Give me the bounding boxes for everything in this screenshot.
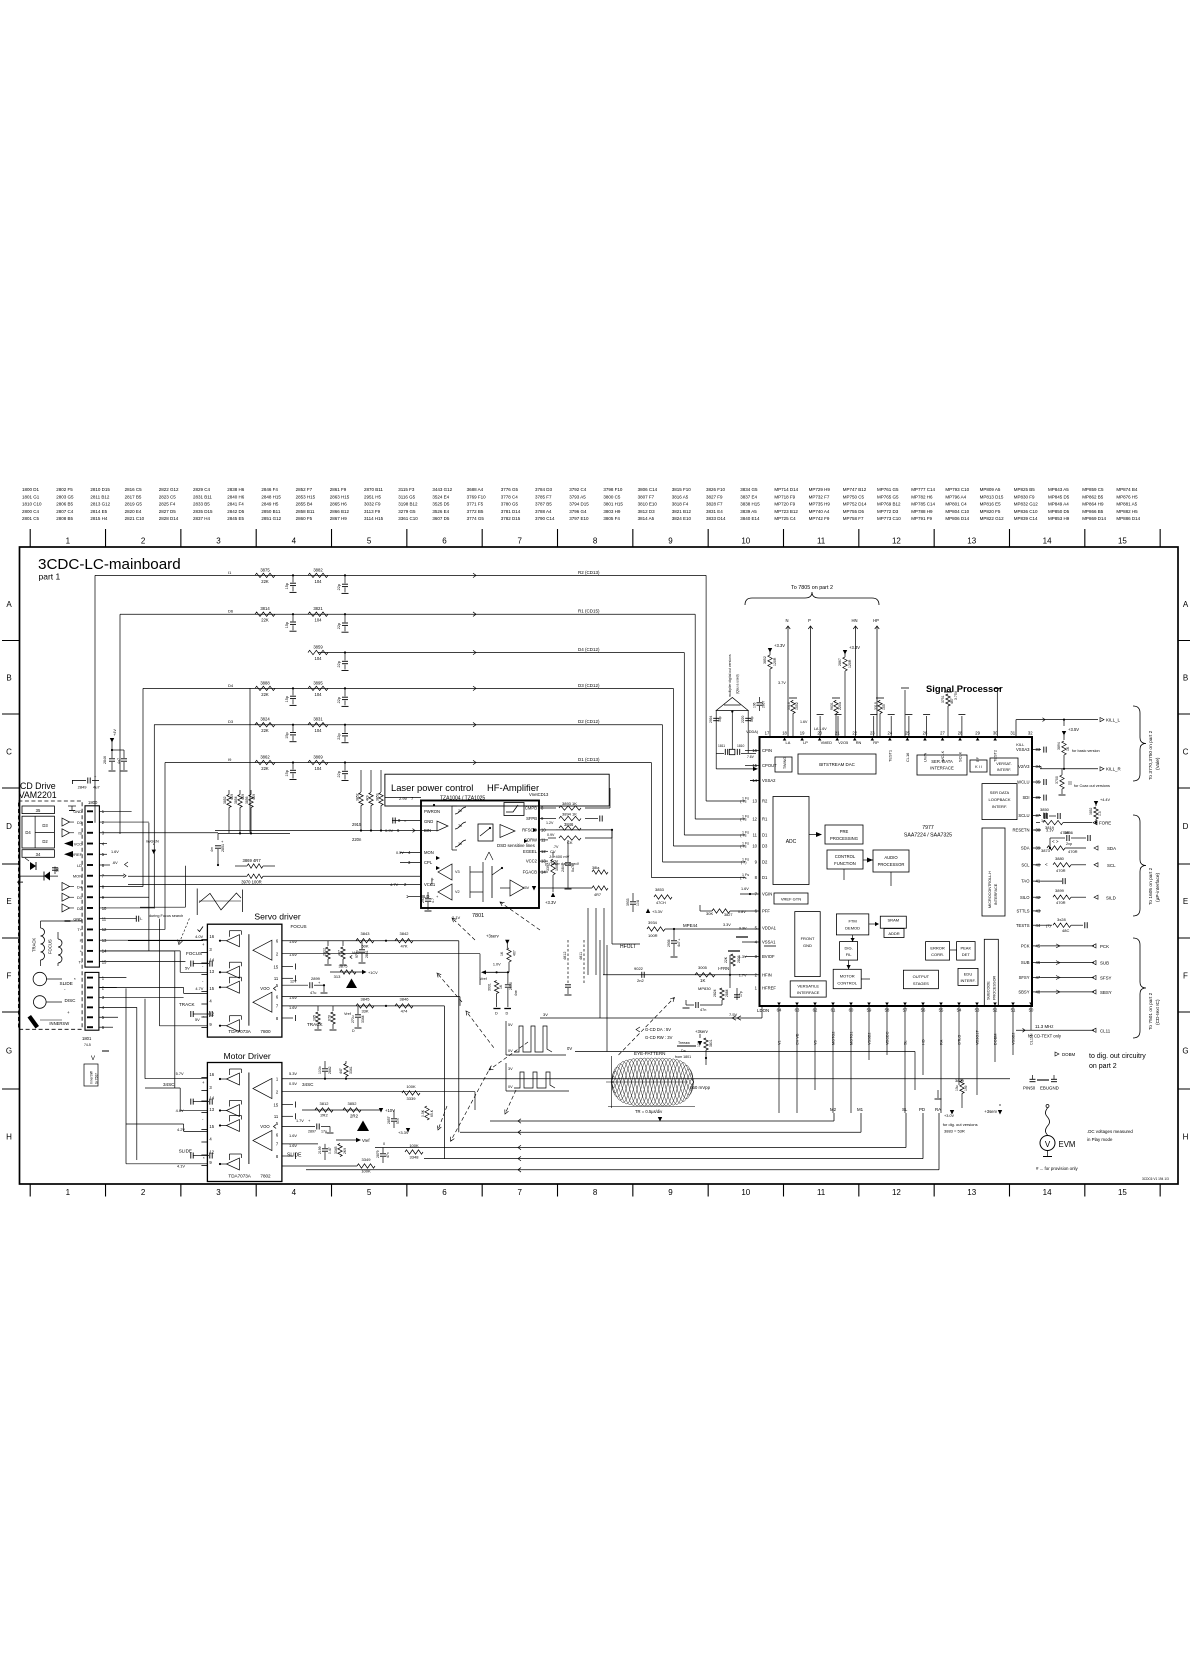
- svg-text:3688 A4: 3688 A4: [467, 487, 484, 492]
- svg-text:14: 14: [1043, 1188, 1052, 1197]
- svg-text:3818 F4: 3818 F4: [672, 502, 689, 507]
- svg-text:2825 F4: 2825 F4: [159, 502, 176, 507]
- svg-text:3790 C14: 3790 C14: [535, 516, 555, 521]
- svg-text:4u7: 4u7: [677, 941, 681, 947]
- svg-text:D6: D6: [228, 609, 234, 614]
- svg-text:10: 10: [741, 537, 750, 546]
- svg-text:V2O5: V2O5: [838, 740, 848, 745]
- svg-text:D2: D2: [42, 839, 48, 844]
- svg-text:SDA: SDA: [1021, 846, 1030, 851]
- svg-text:2897: 2897: [308, 1130, 316, 1134]
- svg-text:VAM2201: VAM2201: [19, 790, 57, 800]
- svg-text:3894: 3894: [1057, 742, 1061, 750]
- svg-text:To 1605 on part 2: To 1605 on part 2: [1148, 867, 1154, 905]
- svg-text:SDI: SDI: [1023, 795, 1030, 800]
- svg-text:270u: 270u: [351, 1015, 355, 1023]
- svg-text:4811: 4811: [579, 952, 583, 960]
- svg-text:MP742 F9: MP742 F9: [809, 516, 830, 521]
- svg-text:2849: 2849: [78, 785, 88, 790]
- svg-text:CORR.: CORR.: [931, 952, 944, 957]
- svg-text:10u: 10u: [955, 1085, 959, 1091]
- svg-text:3806 C14: 3806 C14: [638, 487, 658, 492]
- svg-text:2808 B5: 2808 B5: [56, 516, 73, 521]
- svg-text:R1 (CD15): R1 (CD15): [578, 609, 600, 614]
- svg-text:2846: 2846: [103, 756, 107, 764]
- svg-text:2803 G5: 2803 G5: [56, 494, 74, 499]
- svg-text:PEAK: PEAK: [960, 946, 971, 951]
- svg-text:VERSATILE: VERSATILE: [797, 984, 819, 989]
- svg-text:2815 H4: 2815 H4: [90, 516, 108, 521]
- svg-text:2850: 2850: [509, 982, 513, 990]
- svg-text:MP881 A5: MP881 A5: [1116, 502, 1137, 507]
- svg-text:6: 6: [442, 1188, 447, 1197]
- svg-text:PRE: PRE: [840, 829, 849, 834]
- svg-text:EYE-PATTERN: EYE-PATTERN: [634, 1051, 665, 1056]
- svg-text:LOOPBACK: LOOPBACK: [988, 797, 1010, 802]
- svg-text:2867: 2867: [838, 658, 842, 666]
- svg-text:D2: D2: [77, 906, 82, 911]
- svg-text:38Ia: 38Ia: [592, 866, 600, 870]
- svg-text:3319: 3319: [874, 702, 878, 710]
- svg-text:1800: 1800: [88, 800, 98, 805]
- svg-text:3782 D15: 3782 D15: [501, 516, 521, 521]
- svg-text:8: 8: [593, 1188, 598, 1197]
- svg-text:15: 15: [274, 1102, 279, 1107]
- svg-text:to dig. out circuitry: to dig. out circuitry: [1089, 1053, 1146, 1060]
- svg-text:2800 C4: 2800 C4: [22, 509, 40, 514]
- svg-text:SUBCODE: SUBCODE: [987, 981, 991, 1000]
- svg-text:*: *: [74, 977, 76, 982]
- svg-text:2K9: 2K9: [343, 1148, 347, 1154]
- svg-text:MP864 H9: MP864 H9: [1082, 502, 1104, 507]
- svg-text:3831: 3831: [313, 717, 323, 722]
- svg-text:< >: < >: [1052, 839, 1059, 844]
- svg-text:5V: 5V: [195, 1017, 200, 1022]
- svg-text:To 3770,3750 on part 2: To 3770,3750 on part 2: [1148, 730, 1154, 780]
- svg-text:SLIDE: SLIDE: [287, 1153, 302, 1159]
- svg-text:MP874 B4: MP874 B4: [1116, 487, 1138, 492]
- svg-text:V3: V3: [814, 1040, 818, 1045]
- svg-text:3846: 3846: [564, 822, 574, 827]
- svg-text:4R7: 4R7: [594, 893, 601, 897]
- svg-text:VSSD2: VSSD2: [1012, 1033, 1016, 1045]
- svg-text:4: 4: [292, 537, 297, 546]
- svg-text:1810 C10: 1810 C10: [22, 502, 42, 507]
- svg-text:2vp: 2vp: [1066, 842, 1072, 846]
- svg-text:MPE44: MPE44: [683, 923, 698, 928]
- svg-text:MP822 G12: MP822 G12: [980, 516, 1005, 521]
- svg-text:D2: D2: [762, 860, 768, 865]
- svg-text:GND: GND: [424, 819, 433, 824]
- svg-text:+3.3V: +3.3V: [652, 909, 663, 914]
- svg-text:R2 (CD13): R2 (CD13): [578, 570, 600, 575]
- svg-text:CMPB: CMPB: [525, 806, 537, 811]
- svg-text:2837 H4: 2837 H4: [193, 516, 211, 521]
- svg-text:FRONT: FRONT: [801, 936, 815, 941]
- svg-text:D2 (CD12): D2 (CD12): [578, 719, 600, 724]
- svg-text:470R: 470R: [1056, 868, 1066, 873]
- svg-text:To 7805 on part 2: To 7805 on part 2: [791, 585, 833, 591]
- svg-text:MP725 C4: MP725 C4: [774, 516, 796, 521]
- svg-text:15p: 15p: [285, 696, 289, 702]
- svg-text:10: 10: [741, 1188, 750, 1197]
- svg-text:to 7507: to 7507: [95, 1073, 99, 1084]
- svg-text:(CD-text IC): (CD-text IC): [1155, 999, 1161, 1025]
- svg-text:3116 G5: 3116 G5: [398, 494, 415, 499]
- svg-text:Signal Processor: Signal Processor: [926, 683, 1003, 694]
- svg-text:V2/V3: V2/V3: [1018, 764, 1030, 769]
- svg-text:D1: D1: [762, 875, 768, 880]
- svg-text:RA: RA: [935, 1107, 941, 1112]
- svg-text:2813 G12: 2813 G12: [90, 502, 110, 507]
- svg-text:2810 D15: 2810 D15: [90, 487, 110, 492]
- svg-text:4.1V: 4.1V: [177, 1164, 185, 1169]
- svg-text:V3: V3: [455, 870, 460, 874]
- svg-text:SFSY: SFSY: [1100, 976, 1112, 981]
- svg-text:1.2V: 1.2V: [546, 821, 554, 825]
- svg-text:3842: 3842: [400, 931, 410, 936]
- svg-text:2841 F4: 2841 F4: [227, 502, 244, 507]
- svg-text:3198 B12: 3198 B12: [398, 502, 418, 507]
- svg-text:1K: 1K: [500, 951, 504, 956]
- svg-text:+3serv: +3serv: [486, 934, 500, 939]
- svg-text:2806 B5: 2806 B5: [56, 502, 73, 507]
- svg-text:30p: 30p: [718, 716, 722, 722]
- svg-text:EVM: EVM: [1059, 1140, 1076, 1149]
- svg-text:.DC voltages measured: .DC voltages measured: [1087, 1129, 1133, 1134]
- svg-text:P: P: [808, 618, 811, 623]
- svg-text:D3: D3: [762, 844, 768, 849]
- svg-text:3CDC6 V1 194 1/3: 3CDC6 V1 194 1/3: [1142, 1177, 1169, 1181]
- svg-text:15: 15: [209, 1124, 214, 1129]
- svg-text:SRAM: SRAM: [888, 918, 900, 923]
- svg-text:22p: 22p: [337, 661, 341, 667]
- svg-text:Temp: Temp: [430, 878, 434, 886]
- svg-text:MP853 H9: MP853 H9: [1048, 516, 1070, 521]
- svg-text:D1: D1: [762, 833, 768, 838]
- svg-text:SFPB: SFPB: [526, 816, 537, 821]
- svg-text:MP747 B12: MP747 B12: [843, 487, 867, 492]
- svg-text:VOO: VOO: [260, 986, 270, 991]
- svg-text:2850 B11: 2850 B11: [261, 509, 280, 514]
- svg-text:MP752 D14: MP752 D14: [843, 502, 867, 507]
- svg-text:SL: SL: [904, 1040, 908, 1045]
- svg-text:12K: 12K: [697, 1040, 701, 1047]
- svg-text:15: 15: [1118, 1188, 1127, 1197]
- svg-text:DOBM: DOBM: [994, 1034, 998, 1045]
- svg-text:3443 G12: 3443 G12: [432, 487, 452, 492]
- svg-text:MP830: MP830: [698, 986, 711, 991]
- svg-text:12: 12: [892, 537, 901, 546]
- svg-text:ADC: ADC: [786, 839, 797, 845]
- svg-text:2819 G5: 2819 G5: [125, 502, 143, 507]
- svg-text:MP782 H6: MP782 H6: [911, 494, 933, 499]
- svg-text:47K: 47K: [400, 944, 407, 949]
- svg-text:3361 C10: 3361 C10: [398, 516, 418, 521]
- svg-text:2851: 2851: [221, 844, 225, 852]
- svg-text:104: 104: [315, 766, 323, 771]
- svg-text:A: A: [6, 600, 12, 609]
- svg-text:2827 D5: 2827 D5: [159, 509, 177, 514]
- svg-text:0V: 0V: [567, 1046, 572, 1051]
- svg-text:0V: 0V: [508, 1049, 513, 1053]
- svg-text:G: G: [6, 1047, 12, 1056]
- svg-text:<: <: [1045, 862, 1048, 867]
- svg-text:1.6V: 1.6V: [111, 850, 119, 854]
- svg-text:3113 F9: 3113 F9: [364, 509, 381, 514]
- svg-text:2824: 2824: [713, 989, 717, 997]
- svg-text:MP732 F7: MP732 F7: [809, 494, 830, 499]
- svg-text:1.6V: 1.6V: [741, 887, 749, 891]
- svg-text:3846: 3846: [400, 997, 410, 1002]
- svg-text:3882: 3882: [313, 567, 323, 572]
- svg-text:0.8V: 0.8V: [738, 910, 746, 914]
- svg-text:2951 H5: 2951 H5: [364, 494, 382, 499]
- svg-text:Motor Driver: Motor Driver: [224, 1051, 271, 1061]
- svg-text:7977: 7977: [922, 825, 934, 831]
- svg-text:2867 H9: 2867 H9: [330, 516, 348, 521]
- svg-text:MP839 C14: MP839 C14: [1014, 516, 1038, 521]
- svg-text:104: 104: [315, 618, 323, 623]
- svg-text:2R2: 2R2: [350, 1114, 359, 1119]
- svg-text:E: E: [6, 897, 11, 906]
- svg-text:2915: 2915: [352, 822, 362, 827]
- svg-text:(Qau a used): (Qau a used): [736, 674, 740, 694]
- svg-text:3869: 3869: [313, 755, 323, 760]
- svg-text:TDA7073A: TDA7073A: [228, 1174, 251, 1179]
- svg-text:2870 B11: 2870 B11: [364, 487, 383, 492]
- svg-text:F: F: [7, 972, 12, 981]
- svg-text:( 7s: ( 7s: [740, 845, 746, 849]
- svg-text:INTERFACE: INTERFACE: [797, 990, 820, 995]
- svg-text:2845 E5: 2845 E5: [227, 516, 244, 521]
- svg-text:FOCUS: FOCUS: [186, 951, 202, 956]
- svg-text:FOCUS: FOCUS: [48, 939, 53, 954]
- svg-text:HFOLT: HFOLT: [620, 944, 636, 950]
- svg-text:17: 17: [765, 731, 770, 736]
- svg-text:447: 447: [338, 950, 342, 956]
- svg-text:3824 E10: 3824 E10: [672, 516, 692, 521]
- svg-text:A: A: [1183, 600, 1189, 609]
- svg-text:3853: 3853: [655, 887, 665, 892]
- svg-text:DSD sensitive lines: DSD sensitive lines: [497, 843, 536, 848]
- svg-text:2861 F9: 2861 F9: [330, 487, 347, 492]
- svg-text:104: 104: [315, 579, 323, 584]
- svg-text:1K: 1K: [1066, 746, 1070, 751]
- svg-text:K I I: K I I: [975, 765, 982, 769]
- svg-text:MP801 C4: MP801 C4: [945, 502, 967, 507]
- svg-text:PROCESSOR: PROCESSOR: [993, 975, 997, 1000]
- svg-text:48C: 48C: [1062, 928, 1069, 933]
- svg-text:3850: 3850: [1040, 807, 1050, 812]
- svg-text:3894 1K: 3894 1K: [562, 812, 577, 817]
- svg-text:3827 F9: 3827 F9: [706, 494, 723, 499]
- svg-text:KILL_R: KILL_R: [1106, 767, 1121, 772]
- svg-text:2840 H6: 2840 H6: [227, 494, 245, 499]
- svg-text:2828 D14: 2828 D14: [159, 516, 179, 521]
- svg-text:4u7: 4u7: [117, 758, 121, 764]
- svg-text:3812 D3: 3812 D3: [638, 509, 656, 514]
- svg-text:3.7V: 3.7V: [778, 681, 786, 685]
- svg-text:2867: 2867: [762, 700, 766, 708]
- svg-text:3831 E4: 3831 E4: [706, 509, 723, 514]
- svg-text:474: 474: [401, 1009, 408, 1014]
- svg-text:1.6V: 1.6V: [800, 720, 808, 724]
- svg-text:3931: 3931: [487, 983, 491, 991]
- svg-text:11: 11: [274, 976, 279, 981]
- svg-text:3793 A5: 3793 A5: [569, 494, 586, 499]
- svg-text:1800 D1: 1800 D1: [22, 487, 40, 492]
- svg-text:3852: 3852: [348, 1101, 358, 1106]
- svg-text:HFIN: HFIN: [762, 972, 772, 977]
- svg-text:100R: 100R: [648, 933, 658, 938]
- svg-text:1.5: 1.5: [1098, 811, 1102, 816]
- svg-text:SBSY: SBSY: [1100, 990, 1112, 995]
- svg-text:RN: RN: [856, 740, 862, 745]
- svg-text:24: 24: [888, 731, 893, 736]
- svg-text:2i84: 2i84: [561, 865, 565, 872]
- svg-text:SILD: SILD: [1106, 896, 1116, 901]
- svg-text:MP843 A5: MP843 A5: [1048, 487, 1069, 492]
- svg-text:47n: 47n: [700, 1008, 706, 1012]
- svg-text:11: 11: [817, 1188, 826, 1197]
- svg-text:(Vale): (Vale): [1155, 757, 1161, 770]
- svg-text:2833 B5: 2833 B5: [193, 502, 210, 507]
- svg-text:2822 G12: 2822 G12: [159, 487, 179, 492]
- svg-text:MP723 B12: MP723 B12: [774, 509, 798, 514]
- svg-text:1n9: 1n9: [964, 1085, 968, 1091]
- svg-text:29: 29: [975, 731, 980, 736]
- svg-text:22K: 22K: [261, 692, 269, 697]
- svg-text:TR = 0.5µs/div: TR = 0.5µs/div: [635, 1109, 663, 1114]
- svg-text:3792 C4: 3792 C4: [569, 487, 587, 492]
- svg-text:INNERSW: INNERSW: [49, 1021, 69, 1026]
- svg-text:3875: 3875: [339, 964, 349, 969]
- svg-text:FOCUS: FOCUS: [291, 924, 307, 929]
- svg-text:3821: 3821: [313, 606, 323, 611]
- svg-text:3778 C4: 3778 C4: [501, 494, 519, 499]
- svg-text:2852 F7: 2852 F7: [296, 487, 313, 492]
- svg-text:3115 F3: 3115 F3: [398, 487, 415, 492]
- svg-text:MP869 D14: MP869 D14: [1082, 516, 1106, 521]
- svg-text:2831 B11: 2831 B11: [193, 494, 212, 499]
- svg-text:650 mVpp: 650 mVpp: [690, 1085, 711, 1090]
- svg-text:2842 D5: 2842 D5: [227, 509, 245, 514]
- svg-text:# ... for provision only: # ... for provision only: [1036, 1166, 1079, 1171]
- svg-text:CV VB: CV VB: [796, 1033, 800, 1045]
- svg-text:3700: 3700: [1055, 776, 1059, 784]
- svg-text:MP758 F7: MP758 F7: [843, 516, 864, 521]
- svg-text:3: 3: [216, 537, 221, 546]
- svg-text:50n: 50n: [396, 1118, 400, 1124]
- svg-text:D: D: [506, 1012, 509, 1016]
- svg-text:2841: 2841: [365, 950, 369, 958]
- svg-text:GTLG: GTLG: [958, 1035, 962, 1045]
- svg-text:LD: LD: [77, 863, 82, 868]
- svg-text:MP866 B5: MP866 B5: [1082, 509, 1104, 514]
- svg-text:3788 A4: 3788 A4: [535, 509, 552, 514]
- svg-text:MP791 F9: MP791 F9: [911, 516, 932, 521]
- svg-text:2879: 2879: [376, 1150, 380, 1158]
- svg-text:1.7V: 1.7V: [296, 1119, 304, 1123]
- svg-text:MP714 D14: MP714 D14: [774, 487, 798, 492]
- svg-text:CPL: CPL: [424, 860, 433, 865]
- svg-text:3826 F10: 3826 F10: [706, 487, 726, 492]
- svg-text:65.K: 65.K: [430, 1109, 434, 1117]
- svg-text:2846 F4: 2846 F4: [261, 487, 278, 492]
- svg-text:VREF GTN: VREF GTN: [781, 897, 801, 902]
- svg-text:3854: 3854: [234, 796, 238, 804]
- svg-text:17p: 17p: [739, 991, 743, 997]
- svg-text:VD3O1T: VD3O1T: [976, 1030, 980, 1045]
- svg-text:3339: 3339: [407, 1096, 417, 1101]
- svg-text:+: +: [67, 1010, 70, 1015]
- svg-text:VERSAT.: VERSAT.: [996, 762, 1012, 766]
- svg-text:47u: 47u: [310, 991, 316, 995]
- svg-text:during Focus search: during Focus search: [149, 914, 183, 918]
- svg-text:104: 104: [315, 656, 323, 661]
- svg-text:3837 E4: 3837 E4: [740, 494, 757, 499]
- svg-text:OUTPUT: OUTPUT: [913, 974, 930, 979]
- svg-text:3751: 3751: [941, 695, 945, 703]
- svg-text:INTERF.: INTERF.: [992, 804, 1007, 809]
- svg-text:MP806 D14: MP806 D14: [945, 516, 969, 521]
- svg-text:PFF: PFF: [762, 909, 770, 914]
- svg-text:MOTO2: MOTO2: [832, 1032, 836, 1045]
- svg-text:220u: 220u: [838, 702, 842, 710]
- svg-text:D4: D4: [25, 830, 31, 835]
- svg-text:1K: 1K: [499, 984, 503, 989]
- svg-text:EBUGND: EBUGND: [1040, 1086, 1059, 1091]
- svg-text:MP772 D3: MP772 D3: [877, 509, 899, 514]
- svg-text:1.7V: 1.7V: [739, 973, 747, 977]
- svg-text:22K: 22K: [261, 579, 269, 584]
- svg-text:TEST2: TEST2: [993, 750, 998, 762]
- svg-text:3771 F5: 3771 F5: [467, 502, 484, 507]
- svg-text:MP740 A4: MP740 A4: [809, 509, 830, 514]
- svg-text:VSSA2: VSSA2: [762, 778, 776, 783]
- svg-text:7x: 7x: [458, 824, 462, 828]
- svg-text:9: 9: [668, 1188, 673, 1197]
- svg-text:2: 2: [141, 537, 146, 546]
- svg-text:V: V: [1045, 1140, 1051, 1149]
- svg-text:3341: 3341: [349, 1066, 353, 1074]
- svg-text:MP773 C10: MP773 C10: [877, 516, 901, 521]
- svg-text:4.2V: 4.2V: [177, 1127, 185, 1132]
- svg-text:100K: 100K: [406, 1084, 416, 1089]
- svg-text:3852: 3852: [356, 793, 360, 801]
- svg-text:MP859 C5: MP859 C5: [1082, 487, 1104, 492]
- svg-text:10: 10: [752, 844, 757, 849]
- svg-text:2814 E5: 2814 E5: [90, 509, 107, 514]
- svg-text:1.6V: 1.6V: [289, 1133, 297, 1138]
- svg-text:2820 E4: 2820 E4: [125, 509, 142, 514]
- svg-text:5.3V: 5.3V: [289, 1071, 297, 1076]
- svg-text:26: 26: [923, 731, 928, 736]
- svg-text:MP882 H5: MP882 H5: [1116, 509, 1138, 514]
- svg-text:5.7V: 5.7V: [176, 1071, 184, 1076]
- svg-text:3856: 3856: [1064, 830, 1074, 835]
- svg-text:3824: 3824: [260, 717, 270, 722]
- svg-text:M1: M1: [857, 1107, 864, 1112]
- svg-text:FIL: FIL: [846, 952, 853, 957]
- svg-text:CL16: CL16: [905, 753, 910, 762]
- svg-text:3032 F9: 3032 F9: [364, 502, 381, 507]
- svg-text:IS: IS: [78, 831, 82, 836]
- svg-text:PWRON: PWRON: [424, 809, 440, 814]
- svg-text:3800 C5: 3800 C5: [603, 494, 621, 499]
- svg-text:220n: 220n: [352, 837, 362, 842]
